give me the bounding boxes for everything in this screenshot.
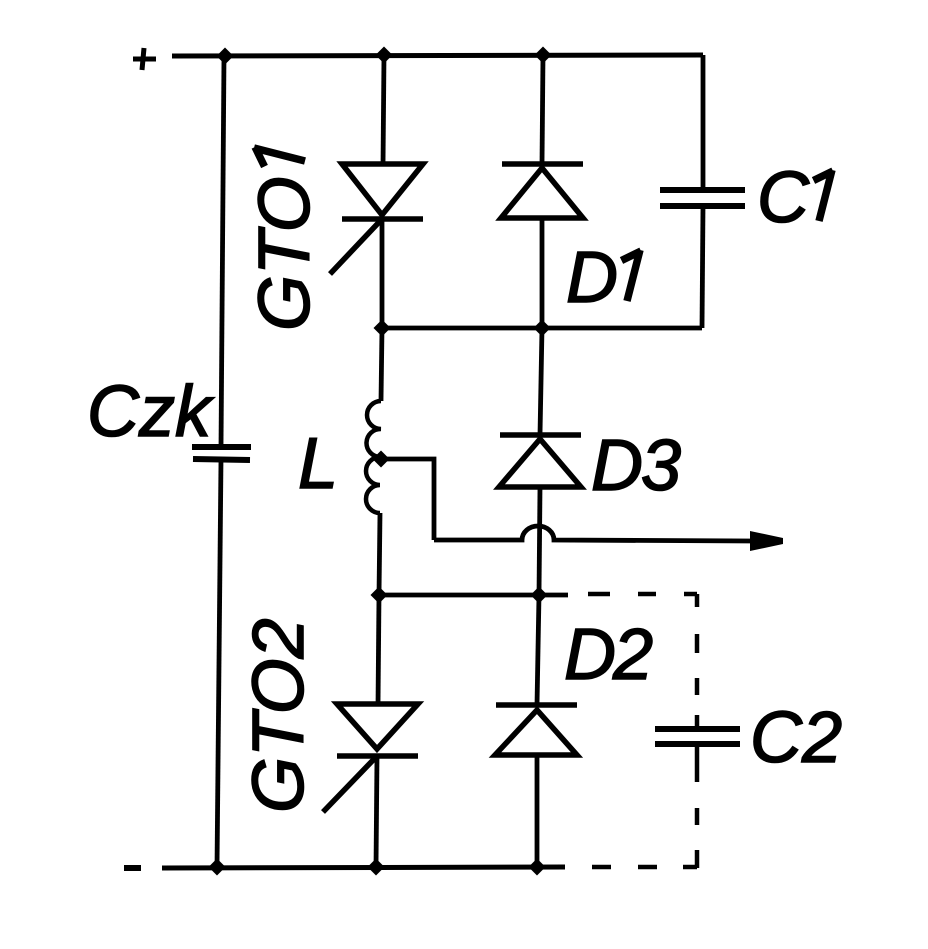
node bottom rail / D2	[529, 859, 546, 876]
wire D3 anode lead	[539, 487, 540, 595]
node top rail / D1	[535, 47, 552, 64]
wire inductor tap horizontal	[381, 459, 434, 540]
svg-text:C: C	[757, 158, 810, 238]
svg-text:C2: C2	[750, 698, 842, 778]
wire lower mid node horizontal	[379, 593, 568, 598]
diode D3	[499, 435, 581, 487]
node mid GTO1/L	[374, 320, 391, 337]
wire D2 anode lead	[535, 755, 540, 867]
label D1 digit 1	[622, 250, 642, 301]
node top rail / left rail	[217, 48, 234, 65]
wire inductor bottom lead	[379, 513, 380, 595]
diode D2	[495, 705, 577, 755]
wire D2 cathode lead	[537, 595, 539, 705]
transistor GTO1	[330, 164, 423, 274]
label GTO1 digit 1	[254, 147, 305, 167]
node bottom rail / GTO2	[368, 859, 385, 876]
wire output with hop over D3 lead	[434, 526, 752, 541]
transistor GTO2	[323, 704, 418, 812]
wire GTO2 anode lead	[378, 595, 379, 706]
wire D1 anode lead	[540, 218, 545, 328]
capacitor Czk	[192, 447, 251, 460]
wire inductor top lead	[381, 328, 382, 401]
node mid D1/D3	[534, 320, 551, 337]
svg-text:GTO2: GTO2	[239, 618, 319, 813]
node lower mid L/GTO2	[371, 587, 388, 604]
wire D1 cathode lead	[542, 55, 543, 164]
wire mid node horizontal	[382, 326, 702, 331]
dashed box top edge C2	[588, 592, 697, 597]
wire GTO1 anode lead	[383, 55, 384, 166]
svg-text:L: L	[298, 424, 338, 504]
svg-text:D3: D3	[591, 426, 681, 506]
wire bottom rail	[162, 867, 565, 868]
wire GTO2 cathode lead	[376, 756, 377, 867]
wire left rail upper (to Czk top plate)	[221, 56, 224, 447]
dashed box bottom edge C2	[592, 865, 697, 870]
wire D3 cathode lead	[540, 328, 542, 435]
node lower mid D3/D2	[531, 587, 548, 604]
svg-text:GTO: GTO	[245, 176, 325, 331]
inductor L	[366, 401, 381, 513]
wire C1 right vertical lower	[702, 206, 703, 328]
diode D1	[501, 164, 583, 218]
svg-text:Czk: Czk	[87, 372, 215, 452]
dashed box right edge C2	[695, 594, 700, 868]
plus terminal label +	[133, 48, 156, 70]
node inductor tap	[373, 451, 390, 468]
wire left rail lower (Czk bottom plate to bottom rail)	[217, 459, 221, 867]
svg-text:D2: D2	[564, 615, 652, 695]
capacitor C2	[655, 729, 740, 744]
label C1 digit 1	[814, 170, 834, 221]
wire top rail	[172, 55, 703, 56]
node bottom rail / left rail	[209, 859, 226, 876]
svg-text:D: D	[566, 238, 618, 318]
wire C1 right vertical upper	[701, 55, 706, 190]
node top rail / GTO1	[376, 47, 393, 64]
wire GTO1 cathode lead	[380, 219, 385, 328]
arrowhead output	[750, 531, 783, 551]
capacitor C1	[660, 190, 745, 206]
minus terminal label -	[124, 865, 141, 871]
